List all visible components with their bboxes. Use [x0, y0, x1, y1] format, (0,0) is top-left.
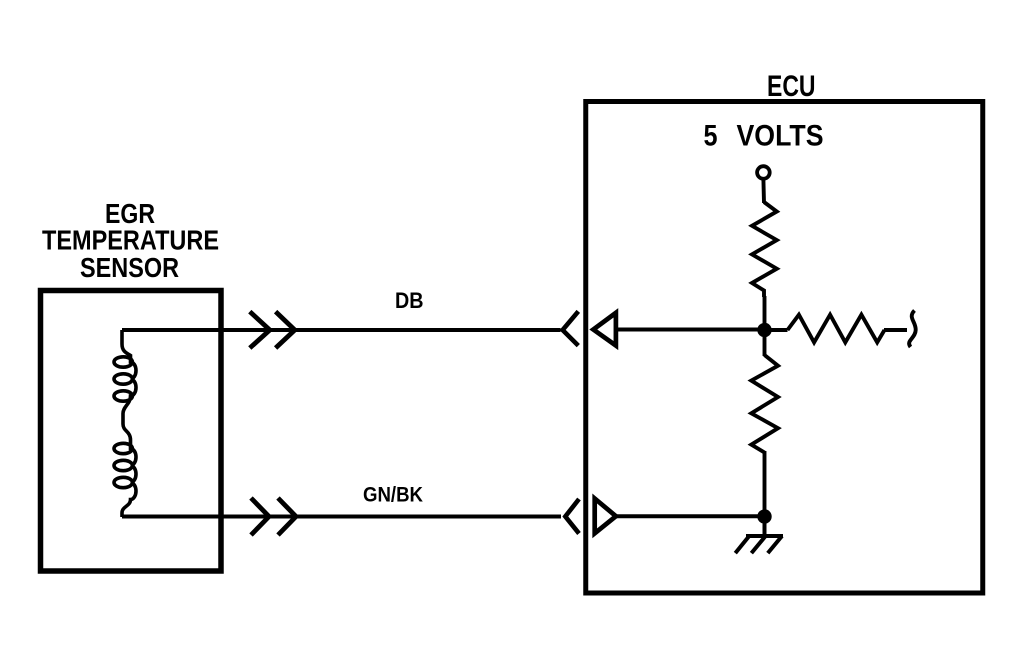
node B (junction dot) — [757, 509, 771, 523]
wire GN/BK (bottom) — [122, 515, 561, 519]
svg-text:TEMPERATURE: TEMPERATURE — [42, 225, 219, 256]
5V terminal circle — [757, 166, 770, 179]
ECU connector chevron (bottom, outside) — [565, 499, 579, 534]
svg-text:ECU: ECU — [767, 70, 816, 103]
svg-text:5: 5 — [704, 120, 718, 153]
wire DB (top) — [122, 328, 561, 332]
resistor R2 (vertical, node A to node B) — [751, 330, 778, 517]
svg-text:VOLTS: VOLTS — [737, 120, 824, 153]
ECU connector triangle (top, inside, pointing left) — [593, 313, 616, 346]
wire-break squiggle — [909, 311, 916, 348]
label EGR TEMPERATURE SENSOR — [42, 198, 219, 283]
wire from top triangle to node A — [616, 328, 765, 332]
sensor coil element — [114, 330, 136, 517]
wire from bottom triangle to node B — [616, 514, 765, 518]
svg-text:GN/BK: GN/BK — [363, 483, 423, 507]
node A (junction dot) — [757, 323, 771, 337]
svg-text:SENSOR: SENSOR — [80, 252, 179, 283]
resistor R3 (horizontal, node A to right) — [765, 311, 916, 348]
ECU connector triangle (bottom, inside, pointing right) — [595, 499, 616, 534]
connector chevrons on GN/BK wire — [251, 498, 296, 535]
sensor box — [41, 291, 222, 572]
ECU box — [586, 102, 983, 594]
resistor R1 (vertical, 5V to node) — [752, 179, 777, 330]
ECU connector chevron (top, outside) — [563, 311, 579, 345]
svg-text:DB: DB — [395, 288, 424, 313]
connector chevrons on DB wire — [250, 312, 295, 348]
ground — [735, 517, 783, 554]
